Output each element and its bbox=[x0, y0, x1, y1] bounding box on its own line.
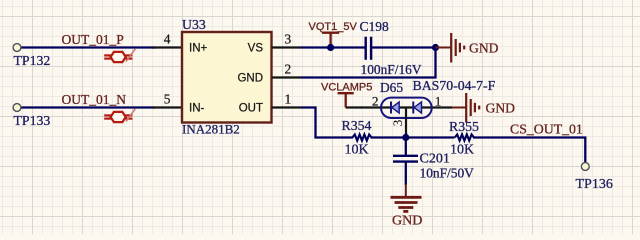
svg-text:OUT: OUT bbox=[239, 102, 263, 114]
wire C198 to junction bbox=[371, 46, 436, 48]
junction C198 / GND pin bbox=[432, 44, 439, 51]
svg-text:1: 1 bbox=[435, 94, 442, 109]
svg-text:4: 4 bbox=[164, 32, 171, 47]
svg-text:D65: D65 bbox=[380, 80, 403, 95]
svg-text:TP133: TP133 bbox=[14, 113, 51, 128]
svg-text:IN-: IN- bbox=[189, 102, 205, 114]
wire GND pin 2 to junction bbox=[301, 48, 436, 78]
svg-text:INA281B2: INA281B2 bbox=[182, 122, 240, 137]
pin 2 GND bbox=[272, 76, 302, 78]
ground GND (top right, sideways) bbox=[436, 33, 465, 63]
wire VS pin to C198 bbox=[301, 46, 366, 48]
test point TP133 bbox=[13, 104, 21, 112]
diode D65 dual schottky BAS70-04 bbox=[361, 98, 452, 134]
svg-text:10K: 10K bbox=[450, 142, 474, 157]
op-amp U33 body bbox=[182, 32, 272, 123]
pin 1 OUT bbox=[272, 106, 302, 108]
differential pair directive (N net) bbox=[104, 109, 135, 122]
svg-text:GND: GND bbox=[486, 100, 516, 115]
svg-text:R355: R355 bbox=[449, 119, 479, 134]
power port VQT1_5V bbox=[322, 33, 339, 48]
svg-text:2: 2 bbox=[285, 62, 292, 77]
svg-text:GND: GND bbox=[237, 72, 263, 84]
svg-text:GND: GND bbox=[469, 40, 499, 55]
svg-text:TP136: TP136 bbox=[576, 177, 613, 192]
svg-text:CS_OUT_01: CS_OUT_01 bbox=[510, 121, 583, 136]
differential pair directive (P net) bbox=[104, 49, 135, 62]
svg-text:2: 2 bbox=[372, 94, 379, 109]
wire diode tap to junction bbox=[405, 133, 407, 138]
ground GND (bottom) bbox=[391, 197, 422, 211]
svg-text:U33: U33 bbox=[182, 17, 206, 32]
pin 4 IN+ of U33 bbox=[152, 46, 182, 48]
svg-text:10K: 10K bbox=[345, 142, 369, 157]
wire R354 to junction bbox=[371, 136, 407, 138]
svg-text:IN+: IN+ bbox=[189, 42, 208, 54]
junction at VQT1_5V tap bbox=[327, 44, 334, 51]
wire net CS_OUT_01 to TP136 bbox=[473, 138, 585, 164]
svg-text:5: 5 bbox=[164, 92, 171, 107]
resistor R355 bbox=[455, 135, 474, 141]
junction R354/R355/C201 bbox=[402, 134, 409, 141]
power port VCLAMP5 bbox=[338, 93, 354, 107]
test point TP136 bbox=[581, 163, 589, 171]
resistor R354 bbox=[352, 135, 371, 141]
svg-text:VCLAMP5: VCLAMP5 bbox=[321, 82, 372, 94]
svg-text:C201: C201 bbox=[420, 152, 450, 167]
svg-text:OUT_01_N: OUT_01_N bbox=[62, 92, 127, 107]
svg-text:100nF/16V: 100nF/16V bbox=[361, 62, 422, 77]
svg-text:OUT_01_P: OUT_01_P bbox=[62, 32, 124, 47]
wire junction to R355 bbox=[406, 136, 455, 138]
svg-text:3: 3 bbox=[285, 32, 292, 47]
wire C201 to ground bbox=[405, 162, 407, 185]
wire OUT pin to resistor row bbox=[301, 108, 353, 138]
ground GND (right of D65, sideways) bbox=[452, 93, 479, 123]
svg-text:GND: GND bbox=[392, 214, 422, 229]
svg-text:1: 1 bbox=[285, 92, 292, 107]
wire VCLAMP5 to D65 pin 2 bbox=[346, 106, 362, 108]
svg-text:TP132: TP132 bbox=[14, 53, 51, 68]
wire net OUT_01_P bbox=[21, 46, 155, 48]
pin 5 IN- of U33 bbox=[152, 106, 182, 108]
svg-text:VQT1_5V: VQT1_5V bbox=[309, 21, 358, 33]
svg-text:10nF/50V: 10nF/50V bbox=[420, 166, 475, 181]
pin 3 VS bbox=[272, 46, 302, 48]
capacitor C198 bbox=[366, 37, 371, 60]
svg-text:BAS70-04-7-F: BAS70-04-7-F bbox=[413, 78, 496, 93]
svg-text:VS: VS bbox=[248, 42, 264, 54]
svg-text:C198: C198 bbox=[360, 19, 390, 34]
test point TP132 bbox=[13, 44, 21, 52]
svg-text:R354: R354 bbox=[342, 118, 372, 133]
wire net OUT_01_N bbox=[21, 106, 155, 108]
svg-text:3: 3 bbox=[390, 120, 405, 127]
wire junction to C201 bbox=[405, 138, 407, 156]
capacitor C201 bbox=[393, 156, 418, 162]
